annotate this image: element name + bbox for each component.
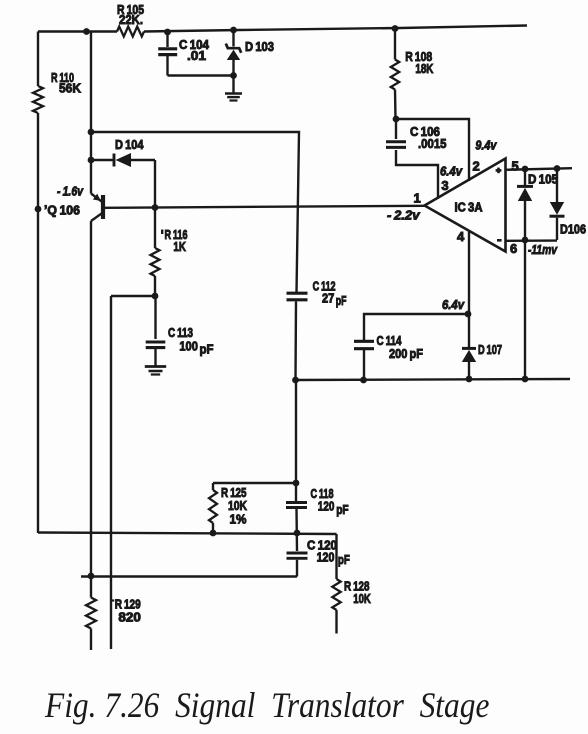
svg-text:D 107: D 107 [478,342,502,357]
svg-text:5: 5 [512,158,519,173]
svg-text:D106: D106 [560,222,586,237]
svg-text:27: 27 [322,291,334,306]
svg-text:820: 820 [118,610,140,625]
svg-text:pF: pF [200,342,214,357]
svg-text:10K: 10K [353,591,371,606]
svg-text:200 pF: 200 pF [389,346,423,361]
svg-text:pF: pF [336,502,348,517]
svg-text:1: 1 [414,191,421,206]
svg-text:3: 3 [441,178,448,193]
svg-text:pF: pF [338,552,350,567]
svg-text:.01: .01 [187,48,206,63]
svg-text:56K: 56K [59,81,82,96]
svg-text:-11mv: -11mv [528,242,558,257]
svg-text:120: 120 [317,550,335,565]
svg-text:1K: 1K [173,239,186,254]
svg-text:D 103: D 103 [245,39,274,54]
svg-text:6.4v: 6.4v [440,163,463,178]
svg-text:9.4v: 9.4v [475,138,497,153]
svg-text:22K.: 22K. [119,12,143,27]
svg-text:pF: pF [336,293,347,308]
svg-text:120: 120 [318,499,335,514]
svg-text:6.4v: 6.4v [442,297,465,312]
svg-text:D 105: D 105 [528,172,558,187]
svg-text:IC 3A: IC 3A [455,200,484,215]
svg-text:2: 2 [473,159,480,174]
svg-text:- 2.2v: - 2.2v [387,208,420,223]
svg-text:18K: 18K [415,61,433,76]
svg-text:1%: 1% [230,512,247,527]
svg-text:6: 6 [510,241,517,256]
svg-text:4: 4 [457,229,465,244]
svg-text:- 1.6v: - 1.6v [57,184,84,199]
svg-text:ʼQ 106: ʼQ 106 [44,203,80,218]
svg-text:100: 100 [179,339,198,354]
svg-text:D 104: D 104 [115,137,144,152]
svg-text:.0015: .0015 [418,136,447,151]
